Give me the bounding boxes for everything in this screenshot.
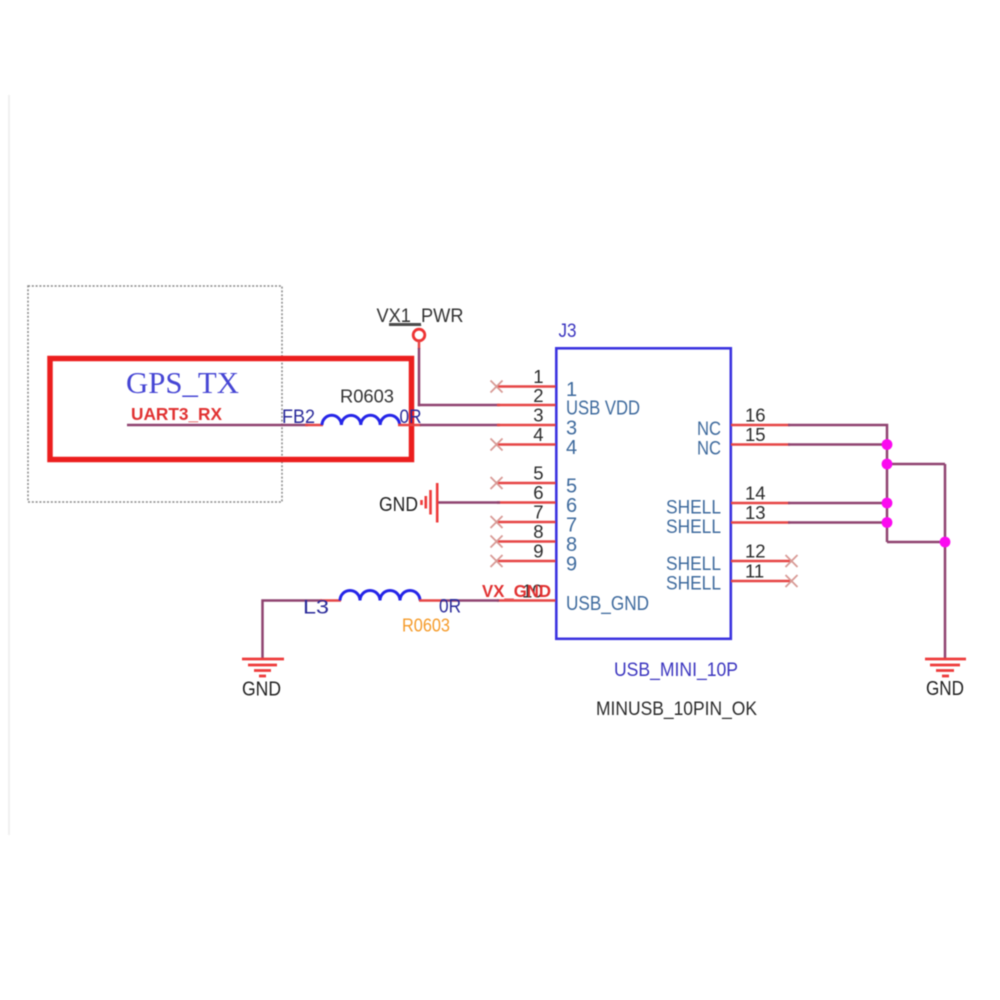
pin 5 stub [496, 482, 556, 485]
no-connect X pin 11 [786, 575, 798, 587]
svg-text:6: 6 [533, 482, 543, 503]
pin 3 stub [497, 424, 556, 427]
svg-text:GND: GND [242, 678, 281, 701]
junction dot crossover top [882, 459, 893, 470]
pin 16 stub [731, 424, 790, 427]
pin 4 stub [496, 443, 556, 446]
no-connect X pin 8 [491, 536, 503, 548]
wire FB2 left terminal [305, 424, 323, 427]
svg-text:5: 5 [533, 463, 543, 484]
dashed module outline box [28, 286, 282, 502]
no-connect X pin 7 [491, 516, 503, 528]
junction dot bottom right [940, 537, 951, 548]
wire L3 to pin 10 [441, 599, 499, 602]
svg-text:2: 2 [533, 385, 543, 406]
ferrite bead FB2 [322, 415, 400, 425]
wire L3 left terminal [320, 599, 341, 602]
svg-text:NC: NC [697, 438, 721, 460]
svg-text:USB_GND: USB_GND [566, 593, 649, 615]
svg-text:UART3_RX: UART3_RX [131, 404, 222, 424]
junction dot pin 14 [882, 498, 893, 509]
svg-text:13: 13 [745, 502, 766, 523]
junction dot pin 13 [882, 517, 893, 528]
pin 1 stub [496, 385, 556, 388]
pin 15 stub [731, 443, 790, 446]
svg-text:R0603: R0603 [340, 387, 394, 407]
pin 9 stub [496, 560, 556, 563]
wire pin 16 to junction [788, 425, 887, 542]
power port tick [389, 323, 421, 326]
wire pin 15 to junction [788, 443, 887, 446]
svg-text:12: 12 [745, 541, 766, 562]
pin 13 stub [731, 521, 790, 524]
svg-text:SHELL: SHELL [666, 516, 721, 538]
red highlight box [50, 359, 412, 460]
svg-text:GPS_TX: GPS_TX [126, 366, 239, 400]
no-connect X pin 12 [786, 555, 798, 567]
junction dot pin 15 [882, 439, 893, 450]
no-connect X pin 1 [491, 381, 503, 393]
connector J3 body [556, 348, 731, 639]
svg-text:14: 14 [745, 483, 766, 504]
svg-text:R0603: R0603 [402, 616, 450, 636]
svg-text:0R: 0R [439, 597, 461, 618]
wire L3 right terminal [419, 599, 442, 602]
svg-text:USB_MINI_10P: USB_MINI_10P [614, 659, 738, 681]
svg-text:SHELL: SHELL [666, 573, 721, 595]
svg-text:VX_GND: VX_GND [482, 581, 551, 601]
inductor L3 [340, 591, 420, 601]
ground symbol bottom-left [242, 659, 284, 676]
power port circle VX1_PWR [413, 329, 425, 341]
svg-text:J3: J3 [559, 321, 577, 342]
pin 8 stub [496, 540, 556, 543]
wire L3 net to GND corner [263, 601, 323, 659]
pin 2 stub [497, 404, 556, 407]
svg-text:FB2: FB2 [282, 407, 315, 428]
svg-text:GND: GND [379, 493, 418, 516]
svg-text:1: 1 [533, 366, 543, 387]
svg-text:L3: L3 [303, 598, 329, 619]
svg-text:9: 9 [566, 554, 577, 576]
pin 14 stub [731, 502, 790, 505]
svg-text:15: 15 [745, 424, 766, 445]
svg-text:11: 11 [745, 561, 764, 582]
wire FB2 to pin 3 [420, 424, 500, 427]
wire FB2 right terminal [398, 424, 421, 427]
wire pin 13 to junction [788, 521, 887, 524]
pin 10 stub [497, 599, 556, 602]
wire VX1_PWR stub [418, 341, 421, 350]
svg-text:4: 4 [533, 424, 543, 445]
wire shell net to ground [944, 464, 947, 658]
svg-text:16: 16 [745, 405, 766, 426]
wire VX1_PWR vertical [418, 348, 421, 406]
svg-text:9: 9 [533, 541, 543, 562]
no-connect X pin 4 [491, 439, 503, 451]
pin 11 stub [731, 580, 790, 583]
svg-text:8: 8 [533, 521, 543, 542]
wire VX1_PWR to pin 2 [418, 404, 500, 407]
wire pin 14 to junction [788, 502, 887, 505]
svg-text:MINUSB_10PIN_OK: MINUSB_10PIN_OK [596, 699, 757, 720]
no-connect X pin 5 [491, 477, 503, 489]
no-connect X pin 9 [491, 555, 503, 567]
wire junction crossover bottom [887, 541, 945, 544]
ground symbol at pin 6 (sideways) [422, 483, 438, 523]
wire GND to pin 6 [439, 501, 501, 504]
svg-text:3: 3 [533, 405, 543, 426]
pin 7 stub [496, 521, 556, 524]
svg-text:GND: GND [926, 677, 964, 700]
svg-text:4: 4 [566, 437, 577, 459]
wire UART3_RX to FB2 [127, 424, 308, 427]
pin 12 stub [731, 560, 790, 563]
svg-text:USB VDD: USB VDD [566, 398, 640, 420]
svg-text:7: 7 [533, 502, 543, 523]
page edge shading [8, 95, 10, 835]
ground symbol bottom-right [925, 659, 966, 676]
pin 6 stub [497, 501, 556, 504]
wire junction crossover top [887, 463, 945, 466]
